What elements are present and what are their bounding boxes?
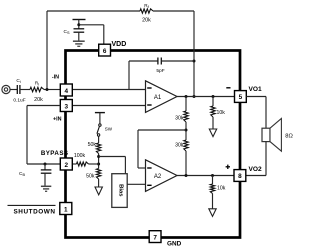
bias block	[112, 174, 127, 208]
svg-text:50k: 50k	[86, 174, 95, 180]
svg-text:4: 4	[65, 88, 69, 95]
wire pin5 to speaker	[246, 96, 266, 98]
wire pin4 to A1 inverting input	[73, 89, 146, 91]
svg-text:VDD: VDD	[112, 41, 127, 48]
wire Cs junction to pin 6	[79, 24, 104, 26]
wire A1 output to pin 5	[177, 96, 235, 98]
node input junction	[46, 88, 49, 91]
speaker LS1	[262, 128, 270, 141]
svg-text:6: 6	[103, 48, 107, 55]
node A2 out / 30k	[185, 174, 188, 177]
svg-text:+IN: +IN	[53, 117, 62, 123]
wire speaker to pin8	[265, 142, 267, 176]
svg-text:20k: 20k	[142, 18, 151, 24]
wire terminal to Ci	[10, 89, 17, 91]
svg-text:0.1uF: 0.1uF	[13, 98, 25, 104]
svg-text:SW: SW	[105, 127, 113, 132]
svg-text:30k: 30k	[175, 143, 184, 149]
svg-text:5pF: 5pF	[156, 68, 164, 74]
arrow to bias (A1 side)	[209, 129, 216, 137]
ground (Cs)	[73, 40, 85, 42]
svg-text:50k: 50k	[88, 142, 97, 148]
pin 6 box	[99, 44, 111, 56]
capacitor Ci 0.1uF	[16, 85, 18, 94]
node bias tap	[97, 155, 100, 158]
svg-text:1: 1	[64, 207, 68, 214]
op-amp A2	[146, 160, 178, 192]
arrow to ground (50k)	[95, 187, 102, 195]
svg-text:GND: GND	[167, 240, 182, 247]
node A2 out / 10k	[211, 174, 214, 177]
node A1 out / 30k	[185, 95, 188, 98]
wire Ci to Ri	[20, 89, 30, 91]
wire 5pF to feedback node	[161, 60, 194, 62]
svg-text:-IN: -IN	[52, 75, 59, 81]
wire Rf to right corner, down to feedback node	[153, 10, 194, 12]
label minus (VO1)	[226, 87, 230, 89]
svg-text:100k: 100k	[74, 153, 86, 159]
resistor 10k (A2 out)	[212, 176, 214, 185]
resistor 30k lower	[184, 140, 188, 151]
supply rail stub (T-bar)	[73, 19, 86, 21]
wire Ri to pin 4	[44, 89, 60, 91]
node Cs/VDD junction	[77, 23, 80, 26]
IC package outline U1	[66, 51, 241, 238]
wire A2 output to pin 8	[177, 175, 235, 177]
pin 3 box	[60, 100, 72, 112]
svg-text:10k: 10k	[217, 110, 226, 116]
wire 5pF branch	[128, 61, 130, 90]
svg-text:Bias: Bias	[118, 184, 124, 197]
node feedback at A1 output	[193, 95, 196, 98]
wire pin3 to A1 noninverting input	[73, 105, 146, 107]
svg-text:7: 7	[153, 234, 157, 241]
resistor Rf 20k	[140, 9, 153, 13]
op-amp A1	[146, 81, 178, 113]
svg-text:A1: A1	[154, 95, 162, 101]
svg-text:VO1: VO1	[249, 86, 263, 93]
switch SW	[99, 124, 101, 126]
capacitor 5pF	[157, 58, 159, 65]
resistor 10k (A1 out)	[212, 97, 214, 107]
node A1 out / 10k	[212, 95, 215, 98]
pin 1 box	[60, 203, 72, 215]
svg-text:20k: 20k	[34, 97, 43, 103]
label plus (VO2)	[226, 166, 230, 168]
arrow to bias (A2 side)	[209, 209, 216, 217]
capacitor Cs	[74, 28, 85, 30]
svg-text:8Ω: 8Ω	[285, 134, 293, 140]
ground (CB)	[41, 185, 51, 187]
svg-text:2: 2	[65, 162, 69, 169]
wire input junction to top-left corner and across top (feedback net)	[46, 11, 48, 90]
resistor 100k	[73, 163, 77, 165]
node 100k junction	[97, 163, 100, 166]
wire bias to A2 input	[127, 183, 145, 185]
pin 4 box	[60, 84, 72, 96]
node feedback/cap junction	[193, 60, 196, 63]
supply stub for switch	[95, 112, 105, 114]
pin 2 box	[60, 158, 72, 170]
resistor Ri 20k	[30, 87, 44, 91]
node 30k midpoint	[185, 122, 187, 140]
svg-text:VO2: VO2	[249, 166, 263, 173]
node CB junction	[44, 163, 47, 166]
svg-text:8: 8	[238, 173, 242, 180]
svg-text:5: 5	[239, 94, 243, 101]
svg-text:Ci: Ci	[16, 78, 20, 84]
svg-text:10k: 10k	[217, 186, 226, 192]
capacitor CB	[44, 164, 46, 170]
pin 8 box	[234, 170, 246, 182]
pin 7 box	[149, 231, 161, 243]
resistor 50k upper	[98, 136, 100, 143]
pin 5 box	[235, 91, 247, 103]
svg-text:3: 3	[65, 104, 69, 111]
wire 30k mid to A2 input	[138, 129, 186, 131]
resistor 30k upper	[185, 97, 187, 112]
svg-text:A2: A2	[154, 174, 162, 180]
resistor 50k lower	[96, 169, 100, 180]
svg-text:BYPASS: BYPASS	[41, 150, 69, 157]
wire to Bias block	[99, 156, 126, 158]
input terminal J1	[2, 85, 10, 93]
wire pin3 to bypass node	[27, 105, 60, 107]
svg-text:30k: 30k	[175, 116, 184, 122]
svg-text:SHUTDOWN: SHUTDOWN	[13, 208, 55, 215]
